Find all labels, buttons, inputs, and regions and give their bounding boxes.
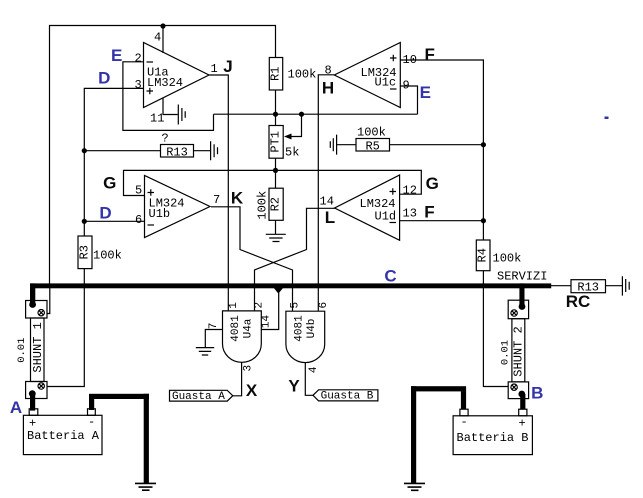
op-amp U1c xyxy=(334,43,400,108)
ground R13b xyxy=(622,276,629,295)
wire U1d pin13 F xyxy=(400,220,484,222)
op-amp U1c plus xyxy=(390,55,397,62)
bus tap to shunt2 xyxy=(519,283,524,305)
svg-text:4081: 4081 xyxy=(230,315,242,342)
svg-text:LM324: LM324 xyxy=(147,76,183,90)
shunt 1 top terminal xyxy=(26,301,47,319)
svg-text:8: 8 xyxy=(325,64,332,78)
ground R13a xyxy=(211,141,218,160)
potentiometer PT1 xyxy=(269,126,283,159)
resistor R1 xyxy=(269,58,282,91)
svg-text:RC: RC xyxy=(566,292,591,311)
svg-text:3: 3 xyxy=(243,365,255,372)
svg-text:9: 9 xyxy=(403,79,410,93)
svg-text:10: 10 xyxy=(403,53,417,67)
op-amp U1b xyxy=(145,176,211,238)
svg-text:U4b: U4b xyxy=(306,319,318,339)
svg-text:R5: R5 xyxy=(365,139,379,153)
battery A box xyxy=(23,415,102,454)
wire R13b right ground lead xyxy=(606,285,623,287)
svg-text:J: J xyxy=(223,57,232,76)
op-amp U1a minus xyxy=(147,61,154,63)
op-amp U1a xyxy=(144,43,210,108)
wire R5 left ground lead xyxy=(337,144,357,146)
resistor R3 xyxy=(78,236,92,269)
svg-text:7: 7 xyxy=(208,323,220,330)
svg-text:SHUNT 1: SHUNT 1 xyxy=(31,322,45,372)
blue dash artifact xyxy=(605,117,609,120)
svg-text:+: + xyxy=(519,417,526,431)
shunt 2 top screw xyxy=(511,310,517,316)
wire left border to shunt1 sense xyxy=(47,284,50,314)
svg-text:+: + xyxy=(29,417,36,431)
battery A minus post xyxy=(88,409,96,416)
wire U1a pin3 D xyxy=(84,88,143,236)
thick shunt2 bottom blob xyxy=(518,391,525,398)
wire U1a pin2 feedback to E line xyxy=(123,62,214,131)
shunt 1 top screw xyxy=(38,310,44,316)
wire U1a pin4 riser xyxy=(162,26,164,53)
wire node L crossing to U4a pin2 xyxy=(255,208,336,311)
svg-text:SHUNT 2: SHUNT 2 xyxy=(512,326,526,376)
svg-text:E: E xyxy=(420,83,431,102)
wire bus to R13b xyxy=(551,285,571,287)
ground U4a pin7 xyxy=(196,348,214,355)
ground R5 xyxy=(330,135,336,155)
op-amp U1c minus xyxy=(390,88,397,90)
svg-text:U1c: U1c xyxy=(375,76,397,90)
ground U1a pin11 xyxy=(178,105,185,125)
svg-text:F: F xyxy=(425,45,435,64)
resistor R5 xyxy=(356,139,390,152)
svg-text:U1b: U1b xyxy=(149,207,171,221)
svg-text:2: 2 xyxy=(135,52,142,66)
shunt 2 bottom screw xyxy=(511,384,517,390)
thick shunt1 bottom blob xyxy=(29,390,36,397)
junction dot pin6 node D xyxy=(82,219,87,224)
svg-text:C: C xyxy=(384,266,396,285)
wire U1b pin6 D xyxy=(84,220,144,222)
svg-text:Y: Y xyxy=(288,377,300,396)
wire R2 bottom ground lead xyxy=(275,220,277,234)
bus left elbow to shunt1 xyxy=(30,283,35,302)
wire R13a left lead xyxy=(84,150,160,152)
ground battery A xyxy=(135,483,156,490)
svg-text:D: D xyxy=(98,69,110,88)
svg-text:4: 4 xyxy=(308,366,320,373)
battery B minus post xyxy=(460,409,468,416)
svg-text:A: A xyxy=(10,398,22,417)
and gate U4b xyxy=(286,311,325,362)
wire top supply rail xyxy=(50,26,276,284)
wire R13a right lead xyxy=(194,150,211,152)
svg-text:1: 1 xyxy=(228,302,240,309)
thick wire battery B ground drop xyxy=(411,386,416,483)
shunt 1 bottom screw xyxy=(38,383,44,389)
thick wire battery B minus up xyxy=(461,391,466,409)
svg-text:14: 14 xyxy=(320,195,334,209)
tag Guasta B xyxy=(313,390,378,401)
svg-text:0.01: 0.01 xyxy=(16,338,28,363)
svg-text:X: X xyxy=(246,381,258,400)
svg-text:Guasta A: Guasta A xyxy=(172,391,225,403)
svg-text:R2: R2 xyxy=(269,197,283,211)
svg-text:R3: R3 xyxy=(78,245,92,259)
wire U4b output Y xyxy=(305,363,313,396)
shunt 1 bottom terminal xyxy=(26,382,47,399)
op-amp U1a plus xyxy=(147,88,154,95)
bus blob shunt2 top xyxy=(519,303,526,310)
wire node J vertical xyxy=(209,75,228,311)
svg-text:6: 6 xyxy=(318,302,330,309)
junction dot pin13 node F xyxy=(481,218,486,223)
junction dot wiper node E xyxy=(299,112,304,117)
svg-text:U4a: U4a xyxy=(243,318,255,338)
op-amp U1d minus xyxy=(390,222,397,224)
svg-text:5k: 5k xyxy=(285,146,299,160)
svg-text:12: 12 xyxy=(403,184,417,198)
thick wire battery B minus horizontal xyxy=(411,386,466,391)
wire U1c pin9 xyxy=(400,86,417,114)
svg-text:G: G xyxy=(426,174,439,193)
battery B plus post xyxy=(519,409,527,416)
shunt 2 body xyxy=(512,319,525,382)
wire U1a pin11 ground lead xyxy=(163,98,178,115)
svg-text:4: 4 xyxy=(154,31,161,45)
thick wire shunt2 to battery B plus xyxy=(520,394,525,410)
tag Guasta A xyxy=(170,390,233,401)
op-amp U1b minus xyxy=(148,224,155,226)
svg-text:100k: 100k xyxy=(288,68,317,82)
svg-text:R4: R4 xyxy=(476,248,490,262)
and gate U4a xyxy=(222,311,261,362)
junction dot pin4 rail xyxy=(160,23,165,28)
shunt 2 top terminal xyxy=(508,300,528,319)
svg-text:G: G xyxy=(103,174,116,193)
battery A plus post xyxy=(29,409,38,416)
bus blob shunt1 top xyxy=(29,301,36,308)
op-amp U1d xyxy=(335,175,400,240)
svg-text:11: 11 xyxy=(150,112,164,126)
thick wire battery A ground drop xyxy=(144,394,149,483)
resistor R4 xyxy=(476,240,490,271)
svg-text:14: 14 xyxy=(261,315,273,329)
wire node G horizontal xyxy=(124,170,422,195)
svg-text:Batteria A: Batteria A xyxy=(27,429,100,443)
wire R4 bottom to shunt2 sense xyxy=(483,271,508,387)
wire U4a pin14 to bus xyxy=(261,290,278,330)
thick wire shunt1 to battery A plus xyxy=(30,394,35,411)
svg-text:-: - xyxy=(461,415,468,429)
svg-text:U1d: U1d xyxy=(375,210,397,224)
thick wire battery A minus up xyxy=(89,399,94,411)
wire node F U1c pin10 xyxy=(400,60,483,240)
svg-text:-: - xyxy=(88,415,95,429)
svg-text:0.01: 0.01 xyxy=(500,340,512,365)
svg-text:13: 13 xyxy=(403,207,417,221)
svg-text:3: 3 xyxy=(135,78,142,92)
op-amp U1d plus xyxy=(390,188,397,195)
svg-text:L: L xyxy=(325,208,335,227)
wire PT1 wiper xyxy=(286,114,302,136)
bus junction U4 supply xyxy=(274,288,283,294)
battery B box xyxy=(453,416,532,455)
wire node H to U4b pin6 xyxy=(318,75,334,311)
wire PT1 bottom to R2 xyxy=(275,158,277,188)
junction dot R13a node D xyxy=(82,148,87,153)
svg-text:R1: R1 xyxy=(269,67,283,81)
op-amp U1b plus xyxy=(148,189,155,196)
bus SERVIZI thick line C xyxy=(30,283,551,288)
wire node E horizontal xyxy=(214,113,418,115)
svg-text:Guasta B: Guasta B xyxy=(321,391,374,403)
shunt 1 body xyxy=(31,318,45,382)
svg-text:100k: 100k xyxy=(93,249,122,263)
potentiometer PT1 wiper arrow xyxy=(284,134,292,140)
svg-text:K: K xyxy=(231,189,244,208)
svg-text:E: E xyxy=(111,46,122,65)
resistor R13 question xyxy=(161,145,194,158)
svg-text:5: 5 xyxy=(290,302,302,309)
wire U4a output X xyxy=(233,362,242,396)
svg-text:100k: 100k xyxy=(357,126,386,140)
resistor R13 servizi xyxy=(571,280,606,293)
svg-text:D: D xyxy=(99,204,111,223)
junction dot PT1 R2 node G xyxy=(273,168,278,173)
svg-text:5: 5 xyxy=(135,184,142,198)
thick wire battery A minus horizontal xyxy=(89,394,149,399)
wire R1 bottom lead xyxy=(275,90,277,126)
shunt 2 bottom terminal xyxy=(508,382,528,399)
wire node K crossing to U4b pin5 xyxy=(211,207,293,311)
ground R2 xyxy=(266,234,286,241)
junction dot R5 node F xyxy=(481,142,486,147)
svg-text:6: 6 xyxy=(135,213,142,227)
svg-text:4081: 4081 xyxy=(294,315,306,342)
svg-text:SERVIZI: SERVIZI xyxy=(497,269,547,283)
svg-text:?: ? xyxy=(162,132,169,146)
svg-text:2: 2 xyxy=(254,302,266,309)
svg-text:B: B xyxy=(531,383,543,402)
wire R5 right lead xyxy=(390,144,484,146)
svg-text:PT1: PT1 xyxy=(269,131,283,153)
svg-text:100k: 100k xyxy=(256,191,270,220)
wire U4a pin7 ground lead xyxy=(205,330,222,348)
svg-text:Batteria B: Batteria B xyxy=(457,431,529,445)
svg-text:1: 1 xyxy=(211,62,218,76)
junction dot R1 PT1 node E xyxy=(273,112,278,117)
svg-text:100k: 100k xyxy=(493,252,522,266)
ground battery B xyxy=(404,483,425,490)
svg-text:F: F xyxy=(424,203,434,222)
resistor R2 xyxy=(269,188,283,220)
svg-text:7: 7 xyxy=(213,193,220,207)
wire R3 bottom to shunt1 sense xyxy=(47,269,84,387)
svg-text:H: H xyxy=(322,79,334,98)
svg-text:R13: R13 xyxy=(166,146,188,160)
